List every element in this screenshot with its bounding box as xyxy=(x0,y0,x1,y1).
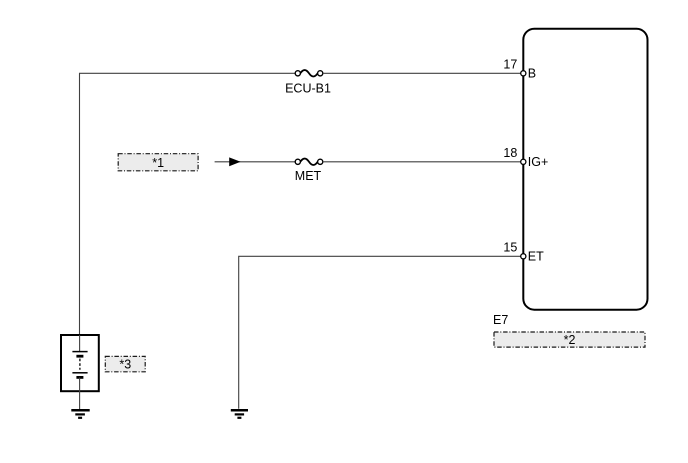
svg-text:MET: MET xyxy=(295,169,322,183)
pin 18 terminal xyxy=(521,159,526,164)
pin 15 terminal xyxy=(521,254,526,259)
wire IG+ row, fuse to pin 18 xyxy=(323,161,521,163)
wire top horizontal B row, corner to fuse ECU-B1 xyxy=(79,72,295,74)
connector U1 (ECU body) xyxy=(523,29,647,310)
svg-text:B: B xyxy=(528,67,536,81)
wire ET row, pin 15 to left then down to ground xyxy=(239,256,521,409)
svg-text:IG+: IG+ xyxy=(528,155,549,169)
battery cell symbol xyxy=(72,335,87,409)
node *3 (dashed box) xyxy=(105,356,145,371)
svg-text:*2: *2 xyxy=(564,333,576,347)
battery (box) xyxy=(61,335,99,391)
wire IG+ row, from *1 to arrow xyxy=(215,161,296,163)
svg-text:ECU-B1: ECU-B1 xyxy=(285,81,331,95)
pin 17 terminal xyxy=(521,71,526,76)
svg-text:18: 18 xyxy=(503,146,517,160)
node *1 (dashed box) xyxy=(118,154,198,171)
ground (ET) xyxy=(231,410,248,418)
svg-text:E7: E7 xyxy=(493,313,508,327)
svg-text:*3: *3 xyxy=(119,357,131,371)
wire B row, fuse to pin 17 xyxy=(323,72,521,74)
fuse MET xyxy=(295,159,323,165)
svg-text:*1: *1 xyxy=(152,156,164,170)
arrow (signal direction) xyxy=(229,157,240,166)
svg-text:ET: ET xyxy=(528,250,544,264)
ground (battery) xyxy=(71,410,89,418)
node *2 (dashed box) xyxy=(494,332,645,347)
wire left vertical riser from battery to B row xyxy=(79,73,81,335)
svg-text:15: 15 xyxy=(503,240,517,254)
fuse ECU-B1 xyxy=(295,70,323,76)
svg-text:17: 17 xyxy=(503,57,517,71)
